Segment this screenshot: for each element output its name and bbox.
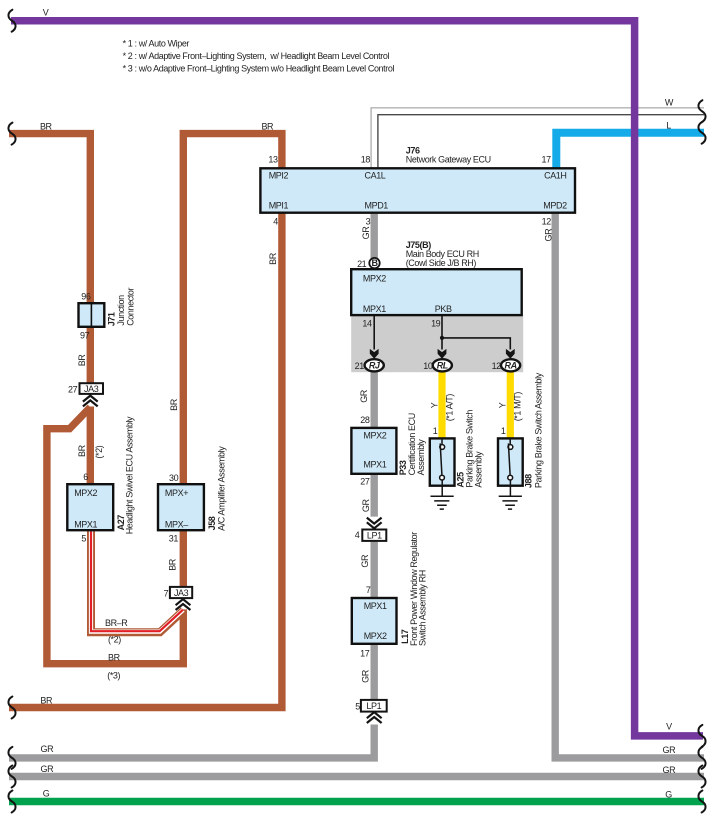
svg-text:1: 1 (433, 426, 438, 436)
svg-text:GR: GR (359, 389, 369, 403)
svg-text:27: 27 (360, 476, 370, 486)
svg-text:13: 13 (268, 154, 278, 164)
svg-text:V: V (666, 722, 672, 732)
svg-text:MPX1: MPX1 (364, 601, 387, 611)
svg-text:GR: GR (361, 226, 371, 240)
svg-text:5: 5 (355, 701, 360, 711)
svg-text:(*1 M/T): (*1 M/T) (513, 392, 523, 422)
svg-text:18: 18 (361, 155, 371, 165)
svg-text:* 3 : w/o Adaptive Front–Light: * 3 : w/o Adaptive Front–Lighting System… (123, 63, 395, 73)
svg-text:Y: Y (429, 402, 439, 408)
svg-text:30: 30 (169, 473, 179, 483)
svg-text:B: B (371, 258, 378, 268)
svg-text:GR: GR (360, 554, 370, 568)
svg-text:MPX2: MPX2 (74, 488, 97, 498)
svg-text:MPD2: MPD2 (543, 200, 567, 210)
svg-text:27: 27 (68, 385, 78, 395)
svg-text:GR: GR (41, 744, 55, 754)
svg-text:4: 4 (355, 530, 360, 540)
svg-text:6: 6 (83, 472, 88, 482)
svg-text:MPX1: MPX1 (363, 304, 386, 314)
svg-text:RA: RA (504, 360, 516, 370)
svg-text:V: V (43, 7, 49, 17)
svg-text:Assembly: Assembly (473, 451, 483, 488)
svg-text:MPX–: MPX– (165, 520, 188, 530)
svg-text:Parking Brake Switch Assembly: Parking Brake Switch Assembly (533, 372, 543, 488)
svg-text:Headlight Swivel ECU Assembly: Headlight Swivel ECU Assembly (124, 416, 134, 534)
svg-text:Network Gateway ECU: Network Gateway ECU (406, 155, 491, 165)
svg-text:BR: BR (77, 444, 87, 457)
svg-text:J88: J88 (524, 474, 534, 488)
svg-text:BR: BR (167, 558, 177, 571)
svg-text:BR: BR (77, 354, 87, 367)
svg-text:97: 97 (80, 331, 90, 341)
svg-text:Switch Assembly RH: Switch Assembly RH (418, 570, 428, 646)
svg-text:(Cowl Side J/B RH): (Cowl Side J/B RH) (406, 258, 477, 268)
svg-text:MPX1: MPX1 (74, 520, 97, 530)
svg-text:MPD1: MPD1 (365, 200, 389, 210)
svg-text:19: 19 (431, 318, 441, 328)
svg-text:31: 31 (169, 533, 179, 543)
svg-text:BR: BR (169, 398, 179, 411)
svg-text:W: W (665, 97, 674, 107)
svg-text:(*2): (*2) (94, 445, 104, 458)
svg-text:MPI1: MPI1 (269, 200, 289, 210)
svg-text:MPX2: MPX2 (364, 631, 387, 641)
svg-text:10: 10 (423, 361, 433, 371)
svg-text:Y: Y (498, 402, 508, 408)
svg-text:(*1 A/T): (*1 A/T) (444, 394, 454, 422)
svg-text:1: 1 (501, 426, 506, 436)
svg-text:BR: BR (268, 252, 278, 265)
svg-text:BR: BR (40, 695, 53, 705)
svg-text:21: 21 (355, 361, 365, 371)
svg-text:BR: BR (261, 122, 274, 132)
svg-text:Assembly: Assembly (416, 439, 426, 476)
svg-text:BR: BR (108, 652, 121, 662)
svg-text:RL: RL (437, 360, 448, 370)
svg-text:14: 14 (362, 318, 372, 328)
svg-text:RJ: RJ (369, 360, 381, 370)
svg-text:Connector: Connector (126, 287, 136, 325)
svg-text:JA3: JA3 (174, 588, 189, 598)
svg-text:28: 28 (360, 415, 370, 425)
svg-text:G: G (43, 788, 50, 798)
svg-text:L: L (666, 120, 671, 130)
svg-text:5: 5 (81, 533, 86, 543)
svg-text:21: 21 (357, 259, 367, 269)
svg-text:4: 4 (273, 217, 278, 227)
svg-text:A/C Amplifier Assembly: A/C Amplifier Assembly (217, 446, 227, 531)
svg-text:GR: GR (663, 745, 677, 755)
svg-text:MPX+: MPX+ (165, 488, 188, 498)
svg-text:J71: J71 (107, 312, 117, 326)
svg-text:LP1: LP1 (366, 701, 381, 711)
svg-text:GR: GR (41, 764, 55, 774)
svg-text:LP1: LP1 (367, 531, 382, 541)
svg-text:12: 12 (492, 361, 502, 371)
svg-text:(*3): (*3) (107, 670, 120, 680)
svg-text:12: 12 (542, 217, 552, 227)
svg-text:GR: GR (360, 669, 370, 683)
svg-text:MPI2: MPI2 (269, 170, 289, 180)
svg-text:JA3: JA3 (84, 384, 99, 394)
svg-text:GR: GR (361, 498, 371, 512)
svg-text:(*2): (*2) (108, 635, 121, 645)
svg-text:* 1 : w/ Auto Wiper: * 1 : w/ Auto Wiper (123, 38, 190, 48)
svg-text:* 2 : w/ Adaptive Front–Lighti: * 2 : w/ Adaptive Front–Lighting System,… (123, 51, 390, 61)
svg-text:G: G (665, 790, 672, 800)
svg-text:Junction: Junction (116, 295, 126, 326)
svg-text:GR: GR (663, 765, 677, 775)
svg-text:BR–R: BR–R (105, 618, 128, 628)
svg-text:7: 7 (164, 589, 169, 599)
svg-text:96: 96 (81, 291, 91, 301)
svg-text:BR: BR (40, 122, 53, 132)
svg-text:MPX2: MPX2 (363, 274, 386, 284)
svg-text:17: 17 (541, 154, 551, 164)
svg-text:17: 17 (360, 649, 370, 659)
svg-text:GR: GR (544, 228, 554, 242)
svg-text:MPX2: MPX2 (363, 431, 386, 441)
svg-text:3: 3 (366, 217, 371, 227)
svg-text:7: 7 (366, 585, 371, 595)
svg-text:MPX1: MPX1 (363, 459, 386, 469)
svg-text:CA1H: CA1H (544, 170, 566, 180)
svg-text:CA1L: CA1L (365, 170, 386, 180)
svg-text:PKB: PKB (435, 304, 452, 314)
